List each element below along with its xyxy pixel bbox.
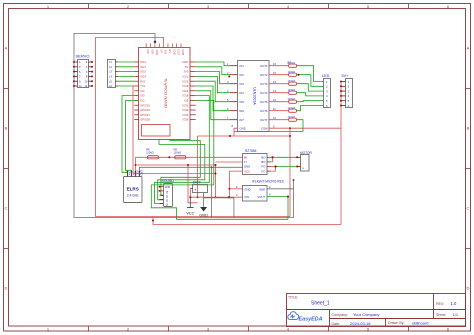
svg-text:Date:: Date: (332, 322, 341, 326)
svg-text:8: 8 (86, 75, 88, 79)
svg-text:IO21: IO21 (182, 75, 188, 79)
svg-text:Sheet:: Sheet: (436, 313, 446, 317)
svg-text:BO: BO (261, 160, 266, 164)
svg-text:RX2: RX2 (140, 79, 146, 83)
svg-text:L4: L4 (109, 75, 112, 79)
svg-text:C: C (5, 206, 8, 211)
svg-text:TX: TX (132, 172, 136, 176)
svg-text:IN7: IN7 (240, 118, 245, 122)
svg-text:Sheet_1: Sheet_1 (311, 301, 330, 307)
svg-text:BI: BI (244, 156, 247, 160)
svg-text:IO2: IO2 (140, 99, 145, 103)
svg-text:REV:: REV: (436, 302, 444, 306)
svg-text:110kΩ: 110kΩ (146, 151, 154, 155)
svg-text:GPIO26: GPIO26 (140, 108, 150, 112)
svg-text:IN: IN (165, 199, 167, 202)
svg-text:5V: 5V (185, 65, 188, 69)
svg-text:A: A (467, 46, 470, 51)
svg-text:1: 1 (326, 80, 328, 84)
svg-text:4: 4 (86, 65, 88, 69)
svg-text:OUT6: OUT6 (260, 109, 268, 113)
svg-text:BATT: BATT (193, 180, 201, 184)
svg-text:3: 3 (348, 89, 350, 93)
svg-text:GPIO28: GPIO28 (140, 118, 150, 122)
svg-text:GND: GND (155, 50, 159, 56)
svg-text:1: 1 (79, 60, 81, 64)
svg-text:5V: 5V (159, 50, 163, 53)
svg-text:3: 3 (326, 89, 328, 93)
svg-text:GND: GND (199, 213, 208, 218)
svg-text:SOUND: SOUND (162, 179, 175, 183)
svg-text:1.0: 1.0 (451, 301, 457, 306)
svg-text:5: 5 (79, 70, 81, 74)
svg-text:EN: EN (168, 50, 172, 54)
svg-text:C: C (467, 206, 470, 211)
svg-text:GND: GND (244, 165, 250, 169)
svg-text:110kΩ: 110kΩ (174, 151, 182, 155)
svg-text:OUT5: OUT5 (260, 100, 268, 104)
svg-text:B: B (467, 126, 470, 131)
svg-text:IO23: IO23 (182, 89, 188, 93)
svg-text:IO36: IO36 (182, 118, 188, 122)
svg-text:2: 2 (326, 85, 328, 89)
svg-text:FO: FO (262, 169, 267, 173)
svg-text:IO14: IO14 (140, 75, 146, 79)
svg-text:sk8board: sk8board (412, 320, 428, 325)
svg-text:VOUT: VOUT (257, 195, 265, 199)
svg-text:1/1: 1/1 (453, 312, 459, 317)
svg-text:L2: L2 (109, 65, 112, 69)
svg-text:2: 2 (86, 60, 88, 64)
svg-text:3V3: 3V3 (164, 50, 168, 55)
svg-text:1: 1 (348, 80, 350, 84)
svg-text:IN: IN (165, 195, 167, 198)
svg-text:IN2: IN2 (240, 73, 245, 77)
svg-text:IO18: IO18 (182, 94, 188, 98)
svg-text:9: 9 (79, 79, 81, 83)
svg-text:BO: BO (261, 156, 266, 160)
svg-text:IN1: IN1 (240, 64, 245, 68)
svg-text:10: 10 (84, 79, 87, 83)
svg-text:SERVO: SERVO (76, 53, 90, 58)
svg-text:4: 4 (326, 94, 328, 98)
svg-text:2: 2 (348, 85, 350, 89)
svg-text:8: 8 (232, 124, 234, 128)
svg-text:3: 3 (236, 193, 238, 197)
svg-text:5: 5 (326, 99, 328, 103)
svg-text:Drawn By:: Drawn By: (388, 321, 405, 325)
svg-text:6: 6 (269, 193, 271, 197)
svg-text:IO33: IO33 (182, 108, 188, 112)
svg-text:IO32: IO32 (182, 103, 188, 107)
svg-text:D: D (5, 286, 8, 291)
svg-text:IN4: IN4 (240, 91, 245, 95)
svg-text:IO8: IO8 (151, 50, 155, 55)
svg-text:VCC: VCC (244, 169, 250, 173)
svg-text:6: 6 (86, 70, 88, 74)
svg-text:GND: GND (259, 187, 265, 191)
svg-text:IO38: IO38 (181, 50, 185, 56)
svg-text:IO35: IO35 (172, 50, 176, 56)
svg-text:GND: GND (182, 60, 188, 64)
svg-text:A: A (5, 46, 8, 51)
svg-text:5: 5 (348, 99, 350, 103)
svg-text:GPIO25: GPIO25 (140, 103, 150, 107)
svg-text:GND: GND (165, 186, 171, 189)
svg-text:IN5: IN5 (240, 100, 245, 104)
svg-text:2: 2 (236, 185, 238, 189)
svg-text:+: + (194, 187, 197, 192)
svg-text:L3: L3 (109, 70, 112, 74)
svg-text:5V: 5V (165, 191, 167, 194)
svg-text:3: 3 (79, 65, 81, 69)
svg-text:Your Company: Your Company (353, 312, 379, 317)
svg-text:L5: L5 (109, 79, 112, 83)
svg-text:IO19: IO19 (182, 84, 188, 88)
svg-text:FO: FO (262, 165, 267, 169)
svg-text:GND: GND (244, 187, 250, 191)
svg-text:IN: IN (165, 204, 167, 207)
svg-text:VCC: VCC (186, 211, 194, 216)
svg-text:TITLE:: TITLE: (288, 295, 298, 299)
svg-text:3V3: 3V3 (184, 70, 189, 74)
svg-text:IN6: IN6 (240, 109, 245, 113)
svg-text:IO34: IO34 (182, 113, 188, 117)
svg-text:OUT2: OUT2 (260, 73, 268, 77)
svg-text:5V+: 5V+ (342, 74, 350, 78)
svg-text:OUT1: OUT1 (260, 64, 268, 68)
svg-text:ELRS: ELRS (127, 187, 139, 192)
svg-text:OUT4: OUT4 (260, 91, 268, 95)
svg-text:iFLIGHT MICRO REC: iFLIGHT MICRO REC (252, 180, 285, 184)
svg-text:VIN: VIN (244, 195, 249, 199)
svg-text:IO0: IO0 (140, 94, 145, 98)
svg-text:IO5: IO5 (184, 99, 189, 103)
svg-text:2.4 GHz: 2.4 GHz (127, 194, 139, 198)
svg-text:IO27: IO27 (140, 65, 146, 69)
svg-text:TinyPICO NANO: TinyPICO NANO (164, 78, 169, 108)
svg-text:L1: L1 (109, 60, 112, 64)
svg-text:EasyEDA: EasyEDA (299, 316, 323, 322)
svg-text:3: 3 (269, 185, 271, 189)
svg-text:IO12: IO12 (140, 60, 146, 64)
svg-text:FI: FI (244, 160, 247, 164)
svg-text:OUT7: OUT7 (260, 118, 268, 122)
svg-text:Company:: Company: (332, 313, 348, 317)
svg-text:IO37: IO37 (177, 50, 181, 56)
svg-text:RZ7886: RZ7886 (245, 149, 257, 153)
svg-text:GPIO27: GPIO27 (140, 113, 150, 117)
svg-text:COM: COM (261, 127, 268, 131)
svg-text:OUT3: OUT3 (260, 82, 268, 86)
svg-text:LED: LED (322, 74, 330, 78)
svg-text:D: D (467, 286, 470, 291)
svg-text:IO9: IO9 (146, 50, 150, 55)
svg-text:ULN2003A: ULN2003A (253, 87, 257, 105)
svg-text:2024-03-18: 2024-03-18 (350, 321, 371, 326)
svg-text:IO4: IO4 (140, 89, 145, 93)
svg-text:TX2: TX2 (140, 84, 145, 88)
svg-text:IO15: IO15 (140, 70, 146, 74)
svg-text:4: 4 (348, 94, 350, 98)
svg-text:GND: GND (240, 127, 246, 131)
svg-text:GND: GND (140, 170, 144, 176)
svg-text:IN3: IN3 (240, 82, 245, 86)
svg-text:IO22: IO22 (182, 79, 188, 83)
svg-text:VCC: VCC (136, 170, 140, 176)
svg-text:B: B (5, 126, 8, 131)
svg-text:+: + (302, 167, 304, 171)
svg-text:RX: RX (128, 172, 132, 176)
svg-text:7: 7 (79, 75, 81, 79)
